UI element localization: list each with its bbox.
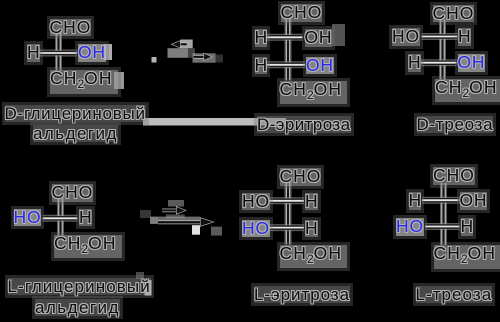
D-erythrose CH2OH	[280, 81, 348, 105]
artifact patch above bottom-short arrow	[168, 200, 184, 207]
D-glyceraldehyde horizontal bond H-C-OH	[40, 50, 78, 57]
artifact gray block right of bottom-long arrow head	[211, 227, 222, 236]
L-erythrose H row1	[305, 193, 318, 211]
artifact white block right of L-glyceraldehyde label	[145, 280, 152, 296]
artifact patch below bottom-short arrow	[166, 214, 185, 218]
label D-threose	[417, 116, 494, 133]
D-erythrose H row1	[255, 29, 268, 47]
equilibrium arrow top-right (points right)	[194, 53, 213, 60]
D-glyceraldehyde vertical bond C1-C3	[55, 33, 62, 71]
L-erythrose CH2OH	[280, 245, 348, 269]
L-erythrose H row2	[305, 220, 318, 238]
artifact light band right of D-glyceraldehyde label	[143, 118, 286, 126]
L-threose CHO	[433, 167, 475, 185]
artifact white block right of D-glyceraldehyde OH	[104, 44, 112, 60]
D-threose horizontal bond row1	[422, 33, 458, 40]
equilibrium arrow bottom-short (points right)	[162, 207, 187, 215]
D-threose horizontal bond row2	[421, 59, 457, 66]
label L-erythrose	[254, 286, 350, 303]
L-glyceraldehyde horizontal bond	[43, 215, 78, 222]
artifact band behind bottom-long arrow	[158, 217, 200, 222]
L-erythrose vertical bond	[285, 182, 292, 245]
L-glyceraldehyde CHO	[52, 184, 94, 202]
D-erythrose vertical bond	[285, 19, 292, 81]
L-erythrose CHO	[280, 168, 322, 186]
artifact dim patch right of top-left arrow patch	[188, 48, 195, 58]
artifact gray block above white block	[136, 272, 144, 279]
D-glyceraldehyde H (left substituent)	[27, 44, 40, 62]
label D-erythrose	[257, 116, 351, 133]
label D-glyceraldehyde line2	[33, 125, 118, 142]
D-erythrose OH row2 (blue)	[306, 57, 334, 75]
artifact gray block right of D-erythrose OH row1	[332, 24, 345, 46]
artifact white block below bottom-long arrow head	[192, 225, 200, 235]
D-threose CHO	[433, 5, 475, 23]
D-erythrose H row2	[255, 57, 268, 75]
L-erythrose horizontal bond row2	[269, 224, 305, 231]
D-threose H row2	[408, 54, 421, 72]
equilibrium arrow bottom-long (points right)	[158, 218, 214, 227]
D-erythrose horizontal bond row1	[267, 34, 303, 41]
artifact gray block left of bottom-long arrow	[150, 217, 158, 224]
L-threose HO row2 (blue)	[396, 218, 424, 236]
D-threose HO row1	[392, 28, 420, 46]
L-glyceraldehyde H (right substituent)	[79, 209, 92, 227]
D-erythrose CHO	[281, 4, 323, 22]
D-erythrose OH row1	[305, 29, 333, 47]
L-glyceraldehyde CH2OH	[54, 235, 122, 259]
artifact dot left of top arrows	[152, 57, 157, 63]
L-threose horizontal bond row1	[422, 197, 459, 204]
L-threose vertical bond	[440, 183, 447, 245]
artifact patch below top-left arrow	[168, 48, 189, 58]
label D-glyceraldehyde line1	[5, 105, 146, 122]
L-glyceraldehyde vertical bond	[57, 199, 64, 236]
label L-threose	[416, 286, 493, 303]
artifact dim patch right of top-right arrow	[216, 55, 224, 63]
L-erythrose HO row2 (blue)	[242, 220, 270, 238]
artifact patch under top-right arrow	[193, 53, 216, 62]
L-threose H row1	[409, 192, 422, 210]
D-glyceraldehyde CH2OH	[50, 70, 118, 94]
label L-glyceraldehyde line2	[35, 299, 120, 316]
L-threose H row2	[461, 218, 474, 236]
L-threose horizontal bond row2	[425, 223, 460, 230]
D-threose H row1	[458, 28, 471, 46]
D-erythrose horizontal bond row2	[266, 61, 305, 68]
L-threose OH row1	[460, 192, 488, 210]
artifact white block right of D-glyceraldehyde CH2OH	[114, 72, 124, 89]
L-threose CH2OH	[434, 245, 500, 269]
D-threose OH row2 (blue)	[458, 54, 486, 72]
D-glyceraldehyde CHO	[50, 19, 92, 37]
artifact bright block above-right of top-left arrow	[181, 40, 193, 49]
equilibrium arrow top-left (points left)	[171, 41, 187, 48]
D-glyceraldehyde OH (blue, right substituent)	[78, 44, 106, 62]
artifact patch right of L-glyceraldehyde	[140, 210, 151, 218]
L-erythrose HO row1	[242, 193, 270, 211]
L-erythrose horizontal bond row1	[269, 197, 305, 204]
D-threose CH2OH	[435, 79, 500, 103]
label L-glyceraldehyde line1	[8, 278, 151, 295]
L-glyceraldehyde HO (blue, left substituent)	[14, 209, 42, 227]
D-threose vertical bond	[439, 20, 446, 80]
